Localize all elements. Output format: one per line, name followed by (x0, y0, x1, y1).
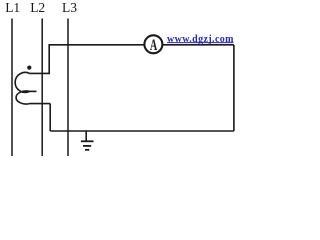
CT secondary winding (two loops) (15, 72, 29, 104)
wire: right vertical wire (233, 45, 235, 131)
wire: phase line L3 (67, 19, 69, 157)
svg-text:L1: L1 (5, 0, 20, 15)
svg-text:www.dgzj.com: www.dgzj.com (167, 34, 234, 45)
polarity dot (27, 66, 31, 70)
svg-text:L2: L2 (30, 0, 45, 15)
wire: phase line L2 (CT primary) (41, 19, 43, 157)
wire: top horizontal from CT secondary to ammeter and right corner (49, 44, 234, 46)
ground (81, 131, 94, 150)
wire: CT secondary top stub (30, 72, 51, 74)
wire: phase line L1 (11, 19, 13, 157)
wire: winding middle tap stub (28, 90, 37, 92)
ammeter U1 (144, 35, 162, 53)
wire: bottom horizontal return wire (50, 130, 234, 132)
wire: vertical from bottom stub down to bottom wire (49, 104, 51, 131)
wire: CT secondary bottom stub (30, 103, 51, 105)
svg-text:A: A (150, 36, 158, 54)
svg-text:L3: L3 (62, 0, 77, 15)
wire: vertical drop from top wire to CT secondary top terminal (48, 44, 50, 73)
